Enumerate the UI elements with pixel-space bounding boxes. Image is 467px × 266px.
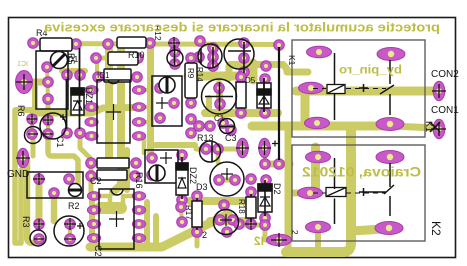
crosshair J1a: [236, 141, 249, 155]
wire top right net: [230, 65, 308, 73]
lead T1: [243, 42, 245, 73]
wire R10 left drop: [95, 58, 99, 75]
svg-text:R18: R18: [237, 199, 246, 214]
op-amp IC2 pads: [87, 192, 100, 201]
wire node A vertical: [16, 82, 35, 110]
resistor R11 body: [117, 37, 146, 48]
svg-text:Craiova, 012012: Craiova, 012012: [302, 165, 421, 180]
capacitor C1 pads: [43, 115, 54, 126]
resistor R18 body: [250, 194, 252, 222]
node pad 251: [246, 174, 257, 185]
wire R17 drop: [195, 234, 200, 246]
resistor R4 body: [40, 38, 72, 51]
svg-text:R13: R13: [197, 133, 214, 143]
capacitor C2a pads: [86, 158, 97, 169]
svg-text:2: 2: [202, 230, 207, 240]
capacitor C2a body: [97, 158, 129, 168]
wire mid vertical rail: [147, 46, 154, 152]
wire ground blob: [100, 202, 121, 214]
resistor R9 pads: [194, 52, 205, 63]
node trace pad: [261, 61, 272, 72]
diode D6 pads: [170, 47, 181, 58]
transistor T5 pads: [201, 144, 212, 155]
trimmer R2 pads: [34, 174, 45, 185]
zener DZ1 body: [71, 88, 84, 115]
capacitor C11 pads: [214, 83, 225, 94]
wire K2 to pad: [351, 229, 383, 231]
wire DZ1 down: [80, 137, 91, 163]
wire mid bundle: [38, 108, 103, 113]
wire K2 bottom U: [286, 129, 351, 252]
wire CON1 trace: [252, 122, 390, 131]
svg-text:protectie acumulator la incarc: protectie acumulator la incarcare si des…: [43, 21, 440, 35]
svg-text:R10: R10: [128, 50, 145, 60]
capacitor C12 body: [104, 69, 131, 82]
transistor T1 pads: [239, 38, 250, 49]
wire C2 pads: [68, 224, 72, 239]
wire jumper row: [263, 150, 267, 164]
wire pads row bottom: [236, 223, 262, 228]
svg-text:R6: R6: [16, 105, 26, 117]
wire K2 pad link: [311, 147, 320, 192]
svg-text:R17: R17: [184, 205, 193, 220]
transistor T3 pads: [208, 43, 219, 54]
pad CON2: [433, 81, 445, 101]
wire DIP right v1: [144, 202, 150, 246]
crosshair pad174: [168, 37, 180, 49]
crosshair I2 pad: [271, 233, 287, 247]
capacitor C1 body: [40, 113, 66, 139]
svg-text:D1: D1: [68, 55, 79, 64]
wire T2 band: [210, 217, 250, 225]
wire T5 row: [196, 147, 236, 152]
wire above DZ1: [62, 68, 85, 74]
crosshair R18b: [245, 218, 257, 230]
node R13 pads: [194, 121, 205, 132]
wire C11 pads: [219, 84, 220, 108]
wire top mid band: [188, 72, 243, 81]
svg-text:R3: R3: [21, 216, 31, 228]
svg-text:by_pin_ro: by_pin_ro: [339, 65, 402, 77]
wire C1 pads: [46, 120, 50, 134]
trimmer R16 pads: [147, 153, 158, 164]
trimmer R16 body: [145, 150, 178, 183]
wire C5 pads link: [219, 178, 235, 183]
capacitor C4 pads: [236, 72, 247, 83]
wire bottom L: [265, 225, 275, 240]
trimmer R2 body: [27, 172, 83, 198]
svg-text:D2: D2: [272, 183, 282, 195]
capacitor C5 body: [210, 162, 244, 196]
wire DZ2 stub: [181, 209, 182, 222]
diode D4 body: [257, 83, 271, 108]
wire R5 wiper: [47, 67, 48, 99]
wire v2 R3: [36, 184, 43, 220]
wire band under C11: [205, 109, 278, 117]
transistor R3 pads: [34, 219, 45, 230]
svg-text:C1: C1: [214, 114, 225, 123]
trimmer R7 body: [152, 76, 182, 126]
node mid pads: [186, 114, 197, 125]
zener DZ1 pads: [75, 70, 86, 81]
svg-text:CON2: CON2: [431, 69, 459, 80]
svg-text:R16: R16: [134, 172, 144, 189]
wire R10 row: [96, 56, 138, 61]
transistor T1 body: [224, 39, 254, 69]
resistor R9 body: [185, 63, 197, 98]
wire K2 left rail: [285, 129, 292, 250]
node DIP stub pads: [176, 202, 187, 213]
lead D1: [66, 79, 68, 129]
trimmer R5 pads: [42, 62, 53, 73]
transistor R3 body: [30, 230, 46, 246]
relay K1 outline: [292, 40, 425, 137]
capacitor C12 pads: [93, 72, 104, 83]
jumper wire: [278, 47, 280, 160]
wire under IC1 cross: [103, 104, 139, 112]
wire C1 to R2: [48, 134, 78, 184]
transistor T2 pads: [215, 215, 226, 226]
zener DZ2 body: [181, 157, 183, 199]
capacitor C3 body: [220, 119, 235, 134]
wire under IC1 B: [113, 45, 121, 192]
wire inside IC2 right: [123, 196, 139, 206]
relay K1 pads: [307, 46, 332, 58]
svg-text:K1: K1: [424, 121, 434, 132]
jumper top pad: [274, 40, 285, 51]
relay K2 pads: [306, 151, 331, 163]
wire mid band R16: [150, 142, 195, 148]
diode D6 body: [167, 50, 183, 66]
pad X1 oval: [16, 71, 33, 94]
transistor T5 body: [200, 141, 221, 162]
wire top net R4 row: [33, 44, 276, 45]
svg-text:R14: R14: [195, 67, 204, 82]
zener DZ2 pads: [177, 150, 188, 161]
resistor R10 pads: [91, 53, 102, 64]
wire v3: [51, 197, 58, 221]
svg-text:2: 2: [290, 230, 299, 235]
svg-text:CON1: CON1: [431, 105, 459, 116]
wire v1 bottom left: [27, 160, 39, 243]
wire K1 pad link: [301, 91, 310, 124]
svg-text:C2: C2: [90, 176, 102, 186]
tick near J1: [272, 141, 278, 147]
crosshair CON2: [432, 84, 446, 98]
node jumper row pads: [260, 159, 271, 170]
crosshair CON1: [432, 122, 446, 136]
svg-text:C1: C1: [55, 136, 65, 148]
trimmer R5 body: [36, 51, 68, 109]
svg-text:D5: D5: [245, 76, 256, 85]
wire left rail: [15, 110, 21, 243]
diode D1 pads: [62, 70, 73, 81]
capacitor C3 pads: [218, 118, 229, 129]
transistor T3 body: [198, 44, 222, 68]
diode D2 pads: [261, 175, 272, 186]
wire under IC1 A: [105, 50, 113, 160]
relay K2 coil: [313, 158, 386, 224]
transistor R6 pads: [27, 114, 38, 125]
capacitor C2b pads: [86, 171, 97, 182]
wire IC1 pin stubs: [139, 88, 150, 92]
svg-text:C2: C2: [93, 245, 103, 257]
wire inside IC2 left: [95, 196, 110, 206]
pad I2 oval: [267, 234, 292, 246]
wire DIP right v2: [153, 216, 159, 246]
capacitor C2b body: [97, 170, 127, 180]
wire K2 pad stub: [315, 231, 321, 249]
wire bottom bundle: [90, 214, 228, 247]
wire R6 pads: [30, 119, 34, 134]
resistor R17 body: [196, 198, 198, 230]
svg-text:K1: K1: [287, 55, 297, 66]
wire IC2 left rail: [89, 196, 95, 244]
op-amp IC1 body: [97, 80, 130, 143]
svg-text:R9: R9: [186, 68, 195, 79]
op-amp IC2 body: [99, 189, 134, 249]
transistor T2 body: [214, 210, 239, 235]
resistor R17 pads: [192, 191, 203, 202]
svg-text:C3: C3: [225, 133, 237, 143]
relay K1 coil: [313, 53, 386, 120]
transistor R6 body: [25, 127, 42, 144]
pad GND oval: [17, 148, 29, 168]
relay K1 contact: [359, 60, 394, 115]
wire T3 link: [226, 66, 233, 78]
relay K2 contact: [359, 163, 394, 216]
capacitor C2 pads: [65, 219, 76, 230]
crosshair GND: [16, 151, 30, 165]
node top row pads: [103, 39, 114, 50]
wire left of R16: [124, 150, 130, 190]
node bottom row pads: [234, 219, 245, 230]
lead DZ1: [79, 48, 81, 129]
svg-text:I2: I2: [254, 234, 264, 248]
resistor R4 pads: [28, 38, 39, 49]
diode D4 pads: [260, 74, 271, 85]
capacitor C2 body: [54, 216, 84, 246]
crosshair X1: [16, 74, 32, 90]
svg-text:IC1: IC1: [97, 71, 110, 80]
crosshair J1b: [258, 141, 271, 155]
wire T5 down: [216, 150, 221, 163]
pad CON1: [433, 119, 445, 139]
svg-text:DZ1: DZ1: [84, 87, 94, 104]
capacitor C11 body: [202, 79, 237, 114]
wire K2 mid left: [288, 190, 310, 197]
jumper J1 pads: [237, 138, 249, 158]
wire C11 drop: [206, 98, 212, 113]
svg-text:IC1: IC1: [17, 61, 28, 68]
wire pad X1 stub: [28, 79, 45, 86]
trimmer R7 pads: [155, 83, 166, 94]
resistor R10 body: [108, 52, 138, 65]
capacitor C5 pads: [214, 175, 225, 186]
wire R5 to C1: [46, 100, 51, 118]
wire K1 coil trace: [296, 87, 434, 96]
resistor R18 pads: [246, 187, 257, 198]
diode D2 body: [258, 184, 272, 212]
wire R18 band: [190, 197, 247, 205]
wire C12 row: [98, 75, 137, 80]
svg-text:D3: D3: [196, 182, 208, 192]
op-amp IC1 pads: [85, 86, 98, 95]
svg-text:GND: GND: [7, 169, 29, 180]
wire R6 down: [31, 140, 36, 156]
svg-text:K2: K2: [429, 221, 443, 236]
wire T1 drop: [249, 63, 258, 80]
lead T3: [212, 47, 214, 67]
relay K2 outline: [292, 145, 425, 241]
svg-text:R2: R2: [68, 201, 80, 211]
wire CON1 link: [390, 126, 437, 128]
capacitor C4 body: [236, 82, 246, 108]
wire C2cap to IC2: [89, 169, 94, 194]
diode CON1 marker: [430, 122, 440, 132]
